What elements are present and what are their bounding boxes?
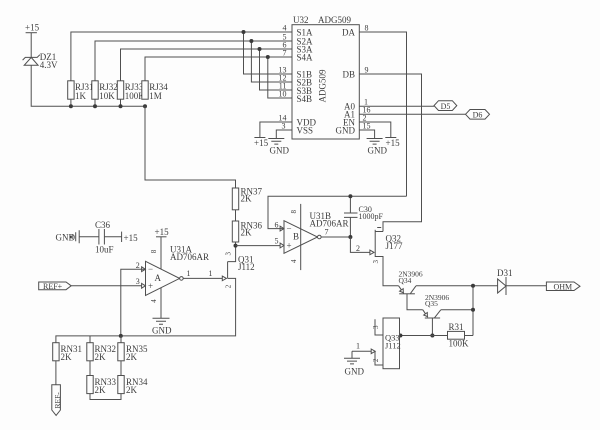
op-amp U31B AD706AR [275, 210, 349, 263]
wire Q35 collector [441, 309, 473, 311]
ground (VSS) [268, 139, 289, 156]
node C30 top / feedback [348, 194, 352, 198]
wire Q34 collector to D31 [416, 285, 498, 287]
svg-text:2: 2 [136, 261, 140, 270]
wire U31B power line [300, 204, 302, 270]
svg-text:3: 3 [372, 260, 380, 264]
svg-text:2K: 2K [126, 352, 138, 362]
wire RJ34 top to S4A [145, 57, 292, 81]
svg-text:D31: D31 [497, 268, 513, 278]
wire RN32 top stub [89, 336, 91, 343]
node RJ32 bottom [93, 104, 97, 108]
svg-text:8: 8 [365, 24, 369, 33]
svg-text:R31: R31 [449, 322, 464, 332]
svg-text:C36: C36 [95, 220, 111, 230]
svg-text:S4B: S4B [297, 94, 313, 104]
svg-text:J112: J112 [238, 262, 255, 272]
svg-text:J112: J112 [385, 341, 401, 351]
U32 pin numbers left [279, 24, 287, 131]
wire S4A to S4B link [268, 57, 292, 98]
wire RN35 top stub [120, 336, 122, 343]
svg-text:D6: D6 [473, 111, 483, 120]
wire RN31 to REF- [55, 361, 57, 385]
svg-text:2: 2 [372, 358, 380, 362]
wire S2A to S2B link [251, 41, 292, 82]
wire U31A feedback (pin 2) [121, 269, 146, 336]
power +15 (C36) [122, 232, 138, 243]
svg-text:DB: DB [342, 69, 355, 79]
svg-text:ADG509: ADG509 [318, 69, 328, 102]
svg-text:3: 3 [282, 122, 286, 131]
wire GND pin 15 [359, 130, 375, 139]
resistor R31 100K [448, 322, 470, 349]
svg-text:1M: 1M [149, 91, 162, 101]
node S2A junction [249, 39, 253, 43]
svg-text:9: 9 [365, 66, 369, 75]
svg-text:REF+: REF+ [43, 282, 63, 291]
wire Q32 drain lead [375, 231, 383, 233]
resistor RJ34 1M [142, 81, 168, 101]
wire S3A to S3B link [260, 49, 293, 90]
svg-text:J177: J177 [386, 241, 404, 251]
svg-text:2K: 2K [126, 385, 138, 395]
svg-text:1000pF: 1000pF [359, 212, 384, 221]
svg-text:VSS: VSS [297, 126, 314, 136]
svg-text:U32: U32 [293, 15, 309, 25]
node feedback / RN35 [119, 334, 123, 338]
power +15 (EN) [385, 138, 400, 149]
wire Q34 base to Q35 emitter [407, 294, 423, 310]
wire RJ32 bottom stub [94, 99, 96, 106]
wire Q31 drain [228, 246, 236, 262]
svg-text:1: 1 [187, 269, 191, 278]
svg-text:100K: 100K [449, 339, 470, 349]
ground (C36 left) [56, 230, 80, 243]
svg-text:7: 7 [325, 228, 329, 237]
svg-text:+15: +15 [254, 138, 269, 148]
multiplexer U32 ADG509 [292, 15, 359, 139]
node S3A junction [258, 47, 262, 51]
svg-text:−: − [148, 264, 153, 274]
wire RJ33 bottom stub [120, 99, 122, 106]
svg-text:GND: GND [152, 326, 172, 336]
transistor Q31 J112 [209, 252, 255, 289]
wire Q31 source to bottom rail [56, 278, 236, 342]
wire R31 right [465, 335, 474, 337]
svg-text:1: 1 [209, 269, 213, 278]
svg-text:8: 8 [150, 249, 158, 253]
svg-text:D5: D5 [441, 102, 451, 111]
svg-text:DA: DA [342, 28, 355, 38]
wire RJ33 top to S3A [121, 49, 293, 81]
wire RJ34 node to RN37 [145, 106, 236, 188]
resistor RJ33 100K [117, 81, 145, 101]
wire VSS pin 3 [276, 130, 292, 139]
wire D31 to OHM [506, 285, 546, 287]
svg-text:B: B [293, 232, 299, 242]
ground (U32 pin 15) [367, 139, 388, 156]
wire EN pin 2 [359, 122, 391, 138]
svg-text:10: 10 [279, 90, 287, 99]
ground (Q33) [344, 358, 364, 376]
port REF- [52, 385, 62, 416]
wire U31B pin6 + feedback to DA [268, 196, 407, 228]
svg-text:3: 3 [224, 252, 232, 256]
wire RN32 to RN33 [89, 361, 91, 376]
wire A1 to D6 [359, 113, 466, 115]
resistor RN31 2K [53, 343, 82, 362]
svg-text:2: 2 [224, 284, 232, 288]
resistor RJ32 10K [92, 81, 118, 101]
node RN36 / pin5 / Q31 drain [234, 244, 238, 248]
svg-text:2K: 2K [61, 352, 73, 362]
resistor RN36 2K [232, 221, 262, 243]
wire Q35 base [431, 318, 433, 336]
wire right vertical link [472, 286, 474, 336]
diode D31 [497, 268, 513, 295]
node Q34 collector rail [471, 284, 475, 288]
wire DB net (pin 9 to Q32 drain) [359, 74, 422, 232]
port D5 [434, 101, 457, 111]
svg-text:GND: GND [270, 146, 290, 156]
svg-text:10uF: 10uF [95, 245, 114, 255]
svg-text:2: 2 [356, 244, 360, 253]
node Q33 output [398, 334, 402, 338]
wire R31 left to Q33 [400, 335, 448, 337]
svg-text:GND: GND [345, 367, 365, 377]
svg-text:8: 8 [290, 210, 298, 214]
resistor RN35 2K [118, 343, 148, 362]
node S1A junction [242, 30, 246, 34]
resistor RN33 2K [87, 376, 117, 396]
wire RN35 to RN34 [120, 361, 122, 376]
resistor RN34 2K [118, 376, 148, 396]
resistor RN37 2K [232, 187, 262, 210]
power +15 (U31A) [155, 227, 170, 237]
wire RN36 bottom [235, 242, 237, 246]
wire RJ32 top to S2A [95, 41, 292, 81]
op-amp U31A AD706AR [136, 245, 209, 303]
svg-text:+15: +15 [25, 23, 40, 33]
wire RN33/RN34 bottoms [90, 394, 121, 400]
wire REF+ to U31A pin 3 [71, 285, 142, 287]
svg-text:OHM: OHM [554, 282, 573, 291]
svg-text:1: 1 [356, 342, 360, 351]
svg-text:+15: +15 [155, 227, 170, 237]
wire RJ31 top to S1A [71, 32, 292, 81]
wire RJ31 bottom stub [70, 99, 72, 106]
wire C36 left [79, 236, 99, 238]
svg-text:REF-: REF- [53, 392, 62, 409]
resistor RJ31 1K [68, 81, 94, 101]
svg-text:5: 5 [275, 237, 279, 246]
svg-text:S4A: S4A [297, 53, 314, 63]
svg-text:2K: 2K [95, 385, 107, 395]
svg-text:4: 4 [150, 299, 158, 303]
svg-text:2K: 2K [241, 228, 253, 238]
port OHM [546, 282, 580, 291]
svg-text:+: + [287, 241, 292, 251]
svg-text:3: 3 [136, 277, 140, 286]
wire RN37 to RN36 [235, 210, 237, 221]
transistor Q35 2N3906 [423, 293, 450, 318]
svg-text:7: 7 [283, 49, 287, 58]
wire output to Q32 gate [350, 237, 369, 252]
wire node to U31B pin 5 [236, 245, 281, 247]
svg-text:ADG509: ADG509 [318, 15, 351, 25]
wire DZ1 anode down and bottom rail to RJ34 [31, 65, 145, 106]
transistor Q32 J177 [356, 228, 403, 264]
wire Q33 gate to GND [352, 351, 371, 358]
svg-text:15: 15 [363, 122, 371, 131]
port REF+ [39, 282, 71, 291]
zener diode DZ1 4.3V [23, 52, 58, 70]
svg-text:GND: GND [336, 126, 356, 136]
svg-text:GND: GND [368, 146, 388, 156]
svg-text:10K: 10K [99, 91, 115, 101]
svg-text:Q35: Q35 [425, 299, 438, 308]
svg-text:1K: 1K [75, 91, 87, 101]
node C30 bottom / output [348, 235, 352, 239]
node RJ33 bottom [119, 104, 123, 108]
svg-text:2K: 2K [95, 352, 107, 362]
svg-text:4: 4 [283, 24, 287, 33]
capacitor C30 1000pF [344, 205, 384, 221]
node RJ34 bottom [143, 104, 147, 108]
ground (U31A) [152, 318, 172, 335]
wire U31B output [321, 236, 350, 238]
svg-text:+15: +15 [386, 138, 401, 148]
wire DA net (pin 8 to feedback node) [359, 32, 407, 196]
wire C30 bottom lead [349, 217, 351, 237]
U32 pin numbers right [363, 24, 371, 131]
svg-text:+15: +15 [124, 233, 139, 243]
resistor RN32 2K [87, 343, 116, 362]
svg-text:AD706AR: AD706AR [310, 218, 349, 228]
svg-text:Q34: Q34 [399, 276, 412, 285]
power +15 (VDD) [254, 138, 269, 149]
node S4A junction [266, 55, 270, 59]
svg-text:3: 3 [372, 325, 380, 329]
wire A0 to D5 [359, 105, 434, 107]
wire VDD pin 14 [260, 122, 292, 138]
svg-text:AD706AR: AD706AR [170, 252, 209, 262]
transistor Q34 2N3906 [399, 270, 423, 294]
wire U31A power line [160, 237, 162, 318]
svg-text:2K: 2K [241, 194, 253, 204]
wire C36 right [104, 236, 121, 238]
node Q35 base / R31 wire [430, 334, 434, 338]
transistor Q33 J112 [356, 318, 401, 369]
wire U31A output to Q31 gate [183, 277, 222, 279]
wire S1A to S1B link [244, 32, 293, 74]
svg-text:A: A [155, 273, 162, 283]
node Q35 collector rail [471, 308, 475, 312]
svg-text:4: 4 [290, 259, 298, 263]
svg-text:+: + [148, 281, 153, 291]
capacitor C36 10uF [95, 220, 114, 255]
wire Q32 source to Q34 emitter [375, 257, 398, 286]
wire +15 to DZ1 [30, 33, 32, 58]
port D6 [466, 110, 490, 120]
node RJ31 bottom [69, 104, 73, 108]
svg-text:4.3V: 4.3V [40, 60, 58, 70]
svg-text:−: − [287, 224, 292, 234]
wire C30 top lead [349, 196, 351, 213]
power +15 (top-left) [25, 23, 40, 33]
